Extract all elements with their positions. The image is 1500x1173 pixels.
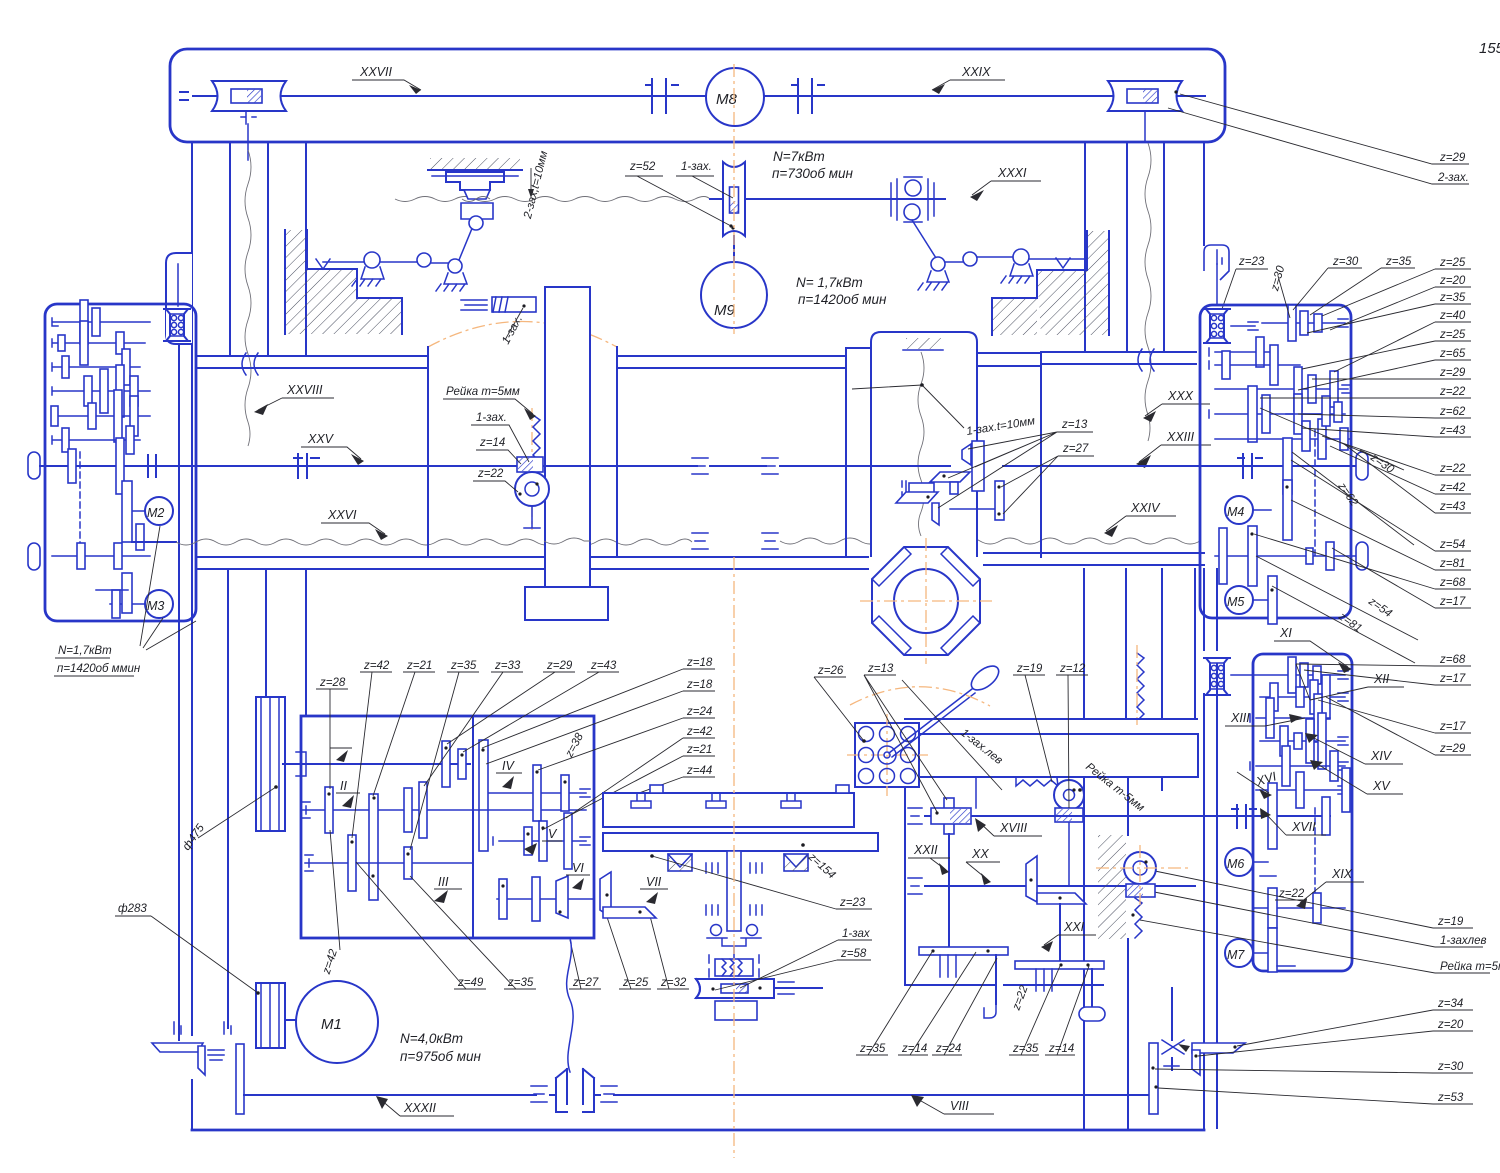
right machine column verticals xyxy=(1085,142,1204,351)
svg-text:z=23: z=23 xyxy=(839,897,866,909)
cluster vertical trapezoid xyxy=(932,503,939,525)
svg-text:z=43: z=43 xyxy=(590,660,617,672)
svg-text:z=35: z=35 xyxy=(450,660,477,672)
bottom right bevel assembly xyxy=(1149,1040,1245,1114)
shaft XXV end cap xyxy=(28,452,40,479)
motor M7 xyxy=(1225,939,1253,967)
right headstock left slab xyxy=(846,348,871,557)
left bevel flag xyxy=(152,1043,203,1052)
shaft I into feed box xyxy=(283,763,470,765)
orange arc over arch xyxy=(428,322,617,348)
svg-text:IV: IV xyxy=(502,759,515,773)
svg-text:1-зах.: 1-зах. xyxy=(500,314,525,347)
svg-text:z=24: z=24 xyxy=(935,1043,961,1055)
svg-text:z=154: z=154 xyxy=(805,851,837,882)
shaft XVII xyxy=(1215,815,1330,817)
svg-text:z=18: z=18 xyxy=(686,657,713,669)
hatched column right xyxy=(1098,835,1126,939)
svg-text:z=54: z=54 xyxy=(1365,595,1393,620)
svg-text:VIII: VIII xyxy=(950,1099,969,1113)
shaft XV xyxy=(1250,762,1348,770)
label 1-zah t=10mm rotated xyxy=(966,415,1036,438)
svg-text:z=32: z=32 xyxy=(660,977,687,989)
svg-text:п=1420об мин: п=1420об мин xyxy=(798,292,887,307)
svg-text:1-зах.: 1-зах. xyxy=(681,161,712,173)
left stepped hatched block xyxy=(285,230,402,334)
right top gearbox housing xyxy=(1200,305,1351,618)
svg-text:z=26: z=26 xyxy=(817,665,844,677)
orange main axis bottom xyxy=(733,557,735,1158)
right drive wavy line from spline xyxy=(1145,143,1151,441)
svg-text:z=30: z=30 xyxy=(1269,264,1288,293)
shaft VI xyxy=(497,898,594,900)
lever XXI flag xyxy=(1026,856,1037,902)
worm shaft horizontal xyxy=(696,979,822,998)
motor M9 xyxy=(733,236,735,262)
gears on XXV in left box xyxy=(68,449,76,483)
svg-text:z=40: z=40 xyxy=(1439,310,1466,322)
headstock wavy centerline xyxy=(918,352,924,536)
svg-text:XIV: XIV xyxy=(1370,749,1393,763)
svg-text:z=30: z=30 xyxy=(1437,1061,1464,1073)
dashed shifter line xyxy=(79,452,81,546)
cluster lower shaft xyxy=(950,508,1001,510)
left gearbox housing xyxy=(45,304,196,621)
left wall verticals below frame xyxy=(179,345,192,1130)
motor M3 xyxy=(145,590,173,618)
shaft XXVII left end marks xyxy=(180,92,188,100)
svg-text:XX: XX xyxy=(971,847,989,861)
svg-text:ф475: ф475 xyxy=(181,822,208,853)
svg-text:VII: VII xyxy=(646,875,662,889)
svg-text:z=42: z=42 xyxy=(686,726,713,738)
pinion z=19 xyxy=(1054,780,1084,810)
svg-text:z=12: z=12 xyxy=(1059,663,1086,675)
shaft XXIII inside box xyxy=(1238,465,1356,467)
svg-text:z=25: z=25 xyxy=(1439,257,1466,269)
svg-text:z=24: z=24 xyxy=(686,706,712,718)
left machine column verticals xyxy=(192,142,306,356)
motor M5 xyxy=(1225,586,1253,614)
S-curve flexible shaft xyxy=(567,938,573,1072)
row y365 gears xyxy=(1209,361,1300,369)
svg-text:z=65: z=65 xyxy=(1439,348,1466,360)
svg-text:z=33: z=33 xyxy=(494,660,521,672)
motor M2 xyxy=(145,497,173,525)
shaft XVIII xyxy=(925,815,1253,817)
motor M8 xyxy=(706,68,764,126)
gear z=52 on M9 shaft xyxy=(723,162,745,236)
svg-text:z=17: z=17 xyxy=(1439,721,1466,733)
svg-text:1-зах: 1-зах xyxy=(842,928,871,940)
column pedestal xyxy=(525,587,608,620)
headstock inner hatch ledge xyxy=(906,338,941,349)
rack spring vertical right xyxy=(1137,653,1144,718)
T-slot table xyxy=(603,785,854,827)
octagonal turret xyxy=(860,538,992,664)
leader 2-zah from right spline xyxy=(1168,108,1469,184)
leaders M2 M3 to text xyxy=(140,526,196,650)
svg-text:XXVIII: XXVIII xyxy=(286,383,323,397)
svg-text:z=21: z=21 xyxy=(686,744,712,756)
svg-text:z=29: z=29 xyxy=(1439,152,1466,164)
svg-text:XXVI: XXVI xyxy=(327,508,357,522)
svg-text:z=58: z=58 xyxy=(840,948,867,960)
svg-text:z=22: z=22 xyxy=(1439,463,1466,475)
gear cluster on cross rail: bevel flag top xyxy=(962,444,971,465)
svg-text:z=43: z=43 xyxy=(1439,425,1466,437)
svg-text:M7: M7 xyxy=(1227,948,1245,962)
left bevel gear bar xyxy=(236,1044,244,1114)
rack on beam underside xyxy=(1016,778,1058,786)
svg-text:z=35: z=35 xyxy=(859,1043,886,1055)
rack zigzag on column xyxy=(533,415,540,466)
svg-text:z=30: z=30 xyxy=(1332,256,1359,268)
shaft III xyxy=(305,855,473,871)
svg-text:N=1,7кВт: N=1,7кВт xyxy=(58,645,112,657)
rotary platform xyxy=(603,833,878,851)
svg-text:z=44: z=44 xyxy=(686,765,712,777)
motor M6 xyxy=(1225,848,1253,876)
row y389 gears xyxy=(1215,385,1350,393)
svg-text:Рейка m=5мм: Рейка m=5мм xyxy=(446,386,520,398)
cluster lower flag left xyxy=(896,492,938,503)
svg-text:XXV: XXV xyxy=(307,432,335,446)
svg-text:1-захлев: 1-захлев xyxy=(1440,935,1486,947)
svg-text:z=35: z=35 xyxy=(1439,292,1466,304)
safety clutch on XVIII xyxy=(931,798,971,834)
leadscrew XXVI blue start xyxy=(132,541,176,543)
svg-text:z=68: z=68 xyxy=(1439,577,1466,589)
svg-text:N=7кВт: N=7кВт xyxy=(773,149,825,164)
svg-text:XXIX: XXIX xyxy=(961,65,991,79)
machine bed top lines xyxy=(198,352,1196,356)
machine bed lower lines xyxy=(197,553,1204,557)
svg-text:z=14: z=14 xyxy=(479,437,505,449)
right headstock main block xyxy=(871,332,977,557)
svg-text:z=20: z=20 xyxy=(1437,1019,1464,1031)
svg-text:XIX: XIX xyxy=(1331,867,1353,881)
cluster horizontal flag xyxy=(930,472,970,482)
center bevel fork xyxy=(556,1069,594,1112)
svg-text:V: V xyxy=(548,827,558,841)
apron left wall xyxy=(904,777,906,985)
shaft XII xyxy=(1260,693,1348,701)
svg-text:M4: M4 xyxy=(1227,505,1244,519)
svg-text:VI: VI xyxy=(572,861,584,875)
leadscrew wavy over column xyxy=(544,538,591,544)
svg-text:п=1420об ммин: п=1420об ммин xyxy=(57,663,141,675)
svg-text:z=23: z=23 xyxy=(1238,256,1265,268)
orange main axis top xyxy=(733,64,735,334)
left column wavy break line xyxy=(245,150,251,446)
svg-text:z=22: z=22 xyxy=(1010,983,1030,1012)
arch side walls xyxy=(428,347,617,557)
svg-text:п=975об мин: п=975об мин xyxy=(400,1049,481,1064)
svg-text:XI: XI xyxy=(1279,626,1292,640)
svg-text:z=13: z=13 xyxy=(1061,419,1088,431)
svg-text:XXIV: XXIV xyxy=(1130,501,1161,515)
spline coupling right on XXVII xyxy=(1108,81,1182,111)
vertical screw xyxy=(727,851,741,931)
clutch bracket above right gearbox xyxy=(1204,245,1229,280)
svg-text:z=27: z=27 xyxy=(572,977,599,989)
label 1-zah.lev rotated xyxy=(958,727,1005,767)
bearing right bottom gearbox xyxy=(1203,658,1231,695)
wire from spline down into column xyxy=(247,124,249,160)
svg-text:XXI: XXI xyxy=(1063,920,1085,934)
gearbox shaft row 3 xyxy=(52,363,140,371)
svg-text:z=34: z=34 xyxy=(1437,998,1463,1010)
right stepped hatched block xyxy=(992,231,1109,335)
right headstock right wall xyxy=(1040,352,1042,557)
svg-text:II: II xyxy=(340,779,347,793)
svg-text:N=4,0кВт: N=4,0кВт xyxy=(400,1031,463,1046)
shaft XXV xyxy=(40,465,845,467)
svg-text:z=38: z=38 xyxy=(563,731,586,760)
shaft of M9 wavy line xyxy=(395,197,710,202)
beam rails xyxy=(905,718,1197,720)
svg-text:z=22: z=22 xyxy=(1278,888,1305,900)
svg-text:XII: XII xyxy=(1373,672,1390,686)
worm gear box xyxy=(715,959,753,976)
shaft XXV over column xyxy=(544,465,591,467)
svg-text:XXVII: XXVII xyxy=(359,65,392,79)
leadscrew XXVI wavy xyxy=(176,539,692,545)
main shaft through right section xyxy=(845,465,1356,467)
row y414 gears xyxy=(1209,410,1330,418)
label 1-zah rotated at piston xyxy=(500,314,525,347)
svg-text:Рейка m=5мм: Рейка m=5мм xyxy=(1440,961,1500,973)
row y439 gears xyxy=(1215,438,1350,440)
shaft XX xyxy=(925,885,1195,887)
labels below feed box xyxy=(320,947,340,976)
central column xyxy=(545,287,590,587)
shaft IV xyxy=(489,789,590,797)
svg-text:z=28: z=28 xyxy=(319,677,346,689)
svg-text:z=42: z=42 xyxy=(363,660,390,672)
shaft XIV xyxy=(1260,737,1348,745)
svg-text:z=29: z=29 xyxy=(1439,367,1466,379)
gears on shaft I xyxy=(442,741,450,787)
shaft V xyxy=(493,837,590,845)
svg-text:z=22: z=22 xyxy=(1439,386,1466,398)
bed break marks at wavy crossings xyxy=(242,349,1154,375)
svg-text:z=17: z=17 xyxy=(1439,673,1466,685)
svg-text:M9: M9 xyxy=(714,302,735,319)
turret lever with knob xyxy=(889,661,1003,757)
svg-text:z=19: z=19 xyxy=(1016,663,1043,675)
svg-text:z=43: z=43 xyxy=(1439,501,1466,513)
label Rejka m-5mm rotated xyxy=(1083,761,1146,814)
svg-text:XXXI: XXXI xyxy=(997,166,1027,180)
dashed shifter in right box xyxy=(1314,430,1316,555)
svg-text:z=35: z=35 xyxy=(507,977,534,989)
screw balls xyxy=(711,925,722,936)
long sliding gear xyxy=(479,740,488,851)
cluster right tall gear xyxy=(995,481,1004,520)
bottom frame line xyxy=(192,1129,1204,1132)
svg-text:z=81: z=81 xyxy=(1439,558,1465,570)
shaft XXVII line xyxy=(193,95,1205,97)
svg-text:z=52: z=52 xyxy=(629,161,656,173)
svg-text:z=27: z=27 xyxy=(1062,443,1089,455)
right pendulum linkage xyxy=(912,220,1085,290)
label z=38 rotated xyxy=(563,731,586,760)
svg-text:z=29: z=29 xyxy=(1439,743,1466,755)
verticals below bed right zone xyxy=(1084,569,1195,719)
shaft XIX xyxy=(1253,907,1345,909)
svg-text:z=18: z=18 xyxy=(686,679,713,691)
gearbox shaft row 4 xyxy=(52,387,150,395)
orange arc of turret xyxy=(850,687,990,706)
bevel flag pair at VI exit xyxy=(556,876,568,918)
shaft XXV breaks xyxy=(692,458,778,474)
svg-text:XVIII: XVIII xyxy=(999,821,1028,835)
turret block with 9 holes xyxy=(847,714,928,796)
worm lower block xyxy=(715,1001,757,1020)
spline coupling left on XXVII xyxy=(212,81,286,124)
svg-text:z=22: z=22 xyxy=(477,468,504,480)
shaft I arrow mark xyxy=(330,747,352,749)
gearbox shaft row 6 xyxy=(52,436,140,444)
shaft XI xyxy=(1231,671,1348,679)
universal joint on shaft XXXI xyxy=(880,177,945,222)
svg-text:M2: M2 xyxy=(147,506,164,520)
svg-text:III: III xyxy=(438,875,449,889)
svg-text:z=54: z=54 xyxy=(1439,539,1465,551)
label 2-zah t=10mm rotated xyxy=(522,150,551,221)
shaft into box xyxy=(1231,322,1258,330)
svg-text:2-зах.: 2-зах. xyxy=(1437,172,1469,184)
bearing right top gearbox xyxy=(1203,309,1231,343)
shaft II xyxy=(302,802,586,818)
svg-text:XIII: XIII xyxy=(1230,711,1250,725)
svg-text:XXX: XXX xyxy=(1167,389,1194,403)
platforms bottom center xyxy=(919,947,1008,1018)
motor M4 xyxy=(1225,496,1253,524)
svg-text:XXIII: XXIII xyxy=(1166,430,1195,444)
gearbox shaft row 1 xyxy=(52,318,150,326)
hanging screw support (ceiling) xyxy=(428,158,522,230)
svg-text:z=25: z=25 xyxy=(622,977,649,989)
vertical from clutch down xyxy=(948,834,950,947)
row y323 gears xyxy=(1262,319,1348,327)
coupling on XXVII left of M8 xyxy=(646,79,678,113)
bearing left gearbox xyxy=(163,309,191,341)
svg-text:z=42: z=42 xyxy=(1439,482,1466,494)
left pendulum linkage xyxy=(316,226,473,291)
svg-text:ф283: ф283 xyxy=(118,903,147,915)
svg-text:z=25: z=25 xyxy=(1439,329,1466,341)
coupling on XXVII right of M8 xyxy=(792,79,824,113)
svg-text:M5: M5 xyxy=(1227,595,1244,609)
label z=154 rotated xyxy=(805,851,837,882)
tall striped column xyxy=(256,697,285,1048)
gearbox shaft row 2 xyxy=(52,339,145,347)
svg-text:M3: M3 xyxy=(147,599,164,613)
svg-text:п=730об мин: п=730об мин xyxy=(772,166,853,181)
dashed shifter right bottom xyxy=(1314,808,1316,900)
svg-text:z=20: z=20 xyxy=(1439,275,1466,287)
wedge supports hatched xyxy=(668,854,808,871)
svg-text:z=29: z=29 xyxy=(546,660,573,672)
lever VII flag xyxy=(600,872,611,917)
svg-text:2-зах,t=10мм: 2-зах,t=10мм xyxy=(522,150,551,221)
svg-text:1-зах.: 1-зах. xyxy=(476,412,507,424)
row y352 gears xyxy=(1209,348,1270,356)
gearbox shaft row 5 xyxy=(52,412,150,420)
coupling on XXV xyxy=(294,454,319,478)
svg-text:M6: M6 xyxy=(1227,857,1244,871)
pinion block z=12 hatched xyxy=(1055,808,1083,822)
cluster bracket left xyxy=(909,483,934,496)
svg-text:z=53: z=53 xyxy=(1437,1092,1464,1104)
apron bottom line xyxy=(905,984,1103,986)
svg-text:z=42: z=42 xyxy=(320,947,340,976)
rack block z=14 xyxy=(517,457,543,472)
shaft row y556 xyxy=(52,555,150,557)
svg-text:M1: M1 xyxy=(321,1016,342,1033)
svg-text:z=62: z=62 xyxy=(1439,406,1466,418)
orange centerline of rack pinion xyxy=(531,408,533,530)
svg-text:155: 155 xyxy=(1479,40,1500,57)
svg-text:z=68: z=68 xyxy=(1439,654,1466,666)
svg-text:z=21: z=21 xyxy=(406,660,432,672)
svg-text:XXII: XXII xyxy=(913,843,938,857)
screw guides xyxy=(706,863,762,873)
row y556 gears xyxy=(1215,555,1356,557)
svg-text:z=19: z=19 xyxy=(1437,916,1464,928)
shaft XXXII xyxy=(244,1094,1153,1096)
left wall bracket xyxy=(166,253,192,344)
label f475 rotated xyxy=(181,822,208,853)
svg-text:XV: XV xyxy=(1372,779,1391,793)
leader z=29 from right spline xyxy=(1180,94,1469,164)
cluster gear on shaft xyxy=(972,441,984,491)
svg-text:XVII: XVII xyxy=(1291,820,1316,834)
shaft XVI xyxy=(1256,786,1348,794)
shaft XIII xyxy=(1250,714,1330,722)
svg-text:z=35: z=35 xyxy=(1385,256,1412,268)
top frame (cross-rail housing) xyxy=(170,49,1225,142)
svg-text:z=17: z=17 xyxy=(1439,596,1466,608)
svg-text:N= 1,7кВт: N= 1,7кВт xyxy=(796,275,863,290)
svg-text:z=13: z=13 xyxy=(867,663,894,675)
svg-text:XXXII: XXXII xyxy=(403,1101,436,1115)
piston damper left xyxy=(461,297,536,312)
pinion z=22 xyxy=(515,472,549,506)
pinion on rack right xyxy=(1124,852,1156,884)
